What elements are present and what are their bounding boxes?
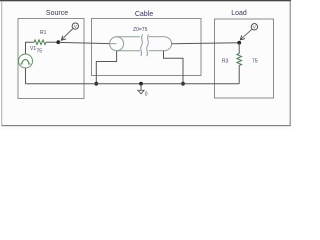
resistor R1 bbox=[34, 40, 46, 45]
svg-text:V1: V1 bbox=[30, 46, 36, 52]
svg-text:V: V bbox=[74, 24, 77, 29]
cable break squiggle left bbox=[141, 34, 143, 56]
svg-text:Load: Load bbox=[231, 10, 247, 17]
wire: load node down to R3 bbox=[238, 43, 240, 54]
cable break squiggle right bbox=[147, 34, 149, 56]
probe P1 arrow bbox=[62, 29, 73, 40]
svg-text:V: V bbox=[253, 25, 256, 30]
load box bbox=[215, 19, 274, 98]
svg-text:0: 0 bbox=[145, 91, 148, 97]
wire: cable shield left to rail bbox=[96, 51, 116, 84]
svg-text:Cable: Cable bbox=[135, 11, 153, 18]
node A junction dot bbox=[56, 40, 60, 44]
cable T1: left end circle bbox=[110, 37, 124, 51]
junction dot shield left bbox=[94, 82, 98, 86]
frame left edge bbox=[1, 1, 2, 126]
resistor R3 bbox=[237, 54, 242, 66]
svg-text:R3: R3 bbox=[222, 59, 229, 65]
svg-text:Z0=75: Z0=75 bbox=[133, 27, 148, 33]
wire: cable shield right to rail bbox=[164, 51, 184, 84]
voltage source V1 bbox=[19, 54, 33, 68]
svg-text:Source: Source bbox=[46, 10, 68, 17]
wire: V1 bottom to rail bbox=[25, 68, 27, 84]
cable box bbox=[92, 19, 202, 76]
probe P2 circle bbox=[251, 24, 257, 30]
frame bottom edge bbox=[2, 125, 291, 126]
cable core line into circle bbox=[110, 43, 117, 45]
junction dot shield right bbox=[181, 82, 185, 86]
wire: cable output to load node bbox=[172, 42, 240, 45]
cable right cap bbox=[164, 37, 172, 51]
node B junction dot (load) bbox=[237, 41, 241, 45]
ground junction dot bbox=[139, 82, 143, 86]
svg-text:75: 75 bbox=[37, 48, 43, 54]
cable body bottom line bbox=[117, 50, 140, 52]
frame right edge bbox=[290, 1, 291, 126]
wire: R1 left lead down to V1 bbox=[26, 42, 35, 54]
svg-text:R1: R1 bbox=[40, 30, 47, 36]
frame top edge bbox=[0, 0, 291, 1]
probe P1 circle bbox=[72, 23, 78, 29]
probe P2 arrow bbox=[241, 29, 252, 39]
wire: node A to cable input bbox=[58, 42, 109, 43]
ground symbol 0 bbox=[140, 84, 142, 91]
wire: R3 bottom to rail bbox=[238, 66, 240, 84]
ground rail wire bbox=[26, 83, 240, 85]
svg-text:75: 75 bbox=[252, 59, 258, 65]
source box bbox=[18, 19, 84, 99]
cable body top line bbox=[117, 36, 140, 38]
wire: R1 right lead to node A bbox=[46, 41, 58, 43]
